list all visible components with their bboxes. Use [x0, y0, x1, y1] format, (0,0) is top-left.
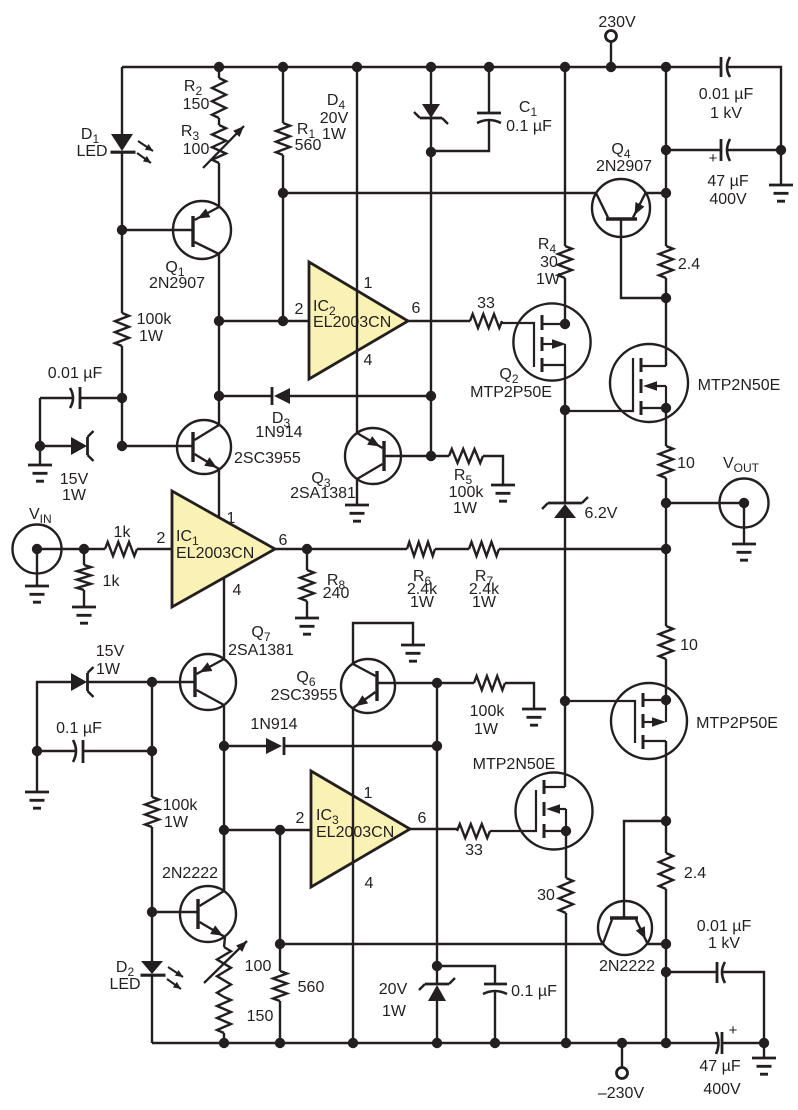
wire R7 to VOUT column — [499, 548, 666, 550]
wire R3 to Q1 emitter — [218, 163, 220, 207]
ground 100k lower mid — [505, 683, 534, 709]
node VOUT junction — [661, 498, 671, 508]
ground R8 — [306, 601, 308, 618]
capacitor 0.1uF lower left — [82, 740, 85, 763]
resistor R6 2.4k 1W — [407, 542, 435, 556]
resistor R5 100k 1W — [449, 449, 483, 463]
svg-text:1W: 1W — [536, 271, 561, 288]
capacitor 0.01uF 1kV lower right — [666, 971, 717, 973]
capacitor 47uF 400V top right — [666, 149, 721, 151]
wire IC2 output pin6 — [408, 320, 470, 322]
resistor R1 560 — [282, 67, 284, 123]
node lower P gate row — [560, 696, 570, 706]
svg-text:MTP2P50E: MTP2P50E — [470, 384, 552, 401]
node 47uF left — [661, 145, 671, 155]
svg-text:10: 10 — [680, 637, 698, 654]
wire Q1 base row — [122, 229, 192, 231]
diode D2 LED — [151, 912, 153, 961]
node Q3 base row — [426, 451, 436, 461]
svg-text:0.01 µF: 0.01 µF — [48, 365, 103, 382]
ground lower left — [36, 751, 38, 792]
ground bottom right — [763, 1043, 765, 1058]
wire D2 to rail corner — [151, 976, 153, 1043]
zener 15V 1W upper — [40, 445, 71, 447]
wire VOUT node down — [665, 503, 667, 549]
svg-text:400V: 400V — [703, 1081, 741, 1098]
svg-text:100k: 100k — [163, 797, 199, 814]
resistor 100k 1W upper left — [115, 313, 129, 346]
node Q1 base junction — [117, 225, 127, 235]
terminal 230V — [606, 31, 617, 42]
resistor 100 variable — [217, 947, 231, 997]
wire R4 to Q2 source node — [564, 278, 566, 324]
node Q6 base / 100k — [432, 678, 442, 688]
wire 10 into mosfet — [665, 659, 667, 700]
wire Q4 base-collector row — [283, 192, 596, 194]
svg-text:1W: 1W — [453, 500, 478, 517]
wire Q6 collector to ground — [353, 623, 413, 664]
wire Q6 emitter / IC3 pin1 pin4 vertical — [352, 708, 354, 1043]
terminal -230V — [621, 1043, 623, 1067]
resistor 100k 1W lower mid — [474, 676, 505, 690]
svg-text:D4: D4 — [327, 92, 346, 112]
svg-text:R2: R2 — [184, 78, 203, 98]
resistor 10 upper — [659, 446, 673, 478]
wire collector row lower — [280, 943, 603, 945]
svg-text:20V: 20V — [320, 110, 349, 127]
svg-text:0.1 µF: 0.1 µF — [56, 720, 102, 737]
node 0.1uF right — [147, 746, 157, 756]
wire top rail right corner — [726, 67, 781, 150]
node zener left — [35, 441, 45, 451]
svg-text:VIN: VIN — [29, 506, 52, 526]
svg-text:MTP2N50E: MTP2N50E — [473, 756, 556, 773]
ground R5 — [483, 456, 503, 485]
zener 15V 1W lower — [37, 682, 71, 751]
svg-text:560: 560 — [295, 137, 322, 154]
svg-text:2N2907: 2N2907 — [149, 275, 205, 292]
svg-text:2N2222: 2N2222 — [599, 958, 655, 975]
wire source to 30 — [565, 831, 567, 878]
wire IC2 pin1/pin4 vertical — [356, 67, 358, 433]
resistor 2.4 upper right — [665, 194, 667, 246]
svg-text:1W: 1W — [164, 814, 189, 831]
svg-text:–230V: –230V — [598, 1085, 645, 1102]
zener 6.2V — [548, 502, 582, 505]
svg-text:LED: LED — [76, 143, 107, 160]
diode D1 LED — [111, 134, 133, 151]
resistor R2 150 — [218, 67, 220, 78]
node D3 row left — [214, 391, 224, 401]
svg-text:+: + — [709, 150, 718, 167]
node 560 collector row — [275, 939, 285, 949]
wire 150 to rail — [223, 1033, 225, 1043]
mosfet MTP2N50E lower — [516, 773, 593, 850]
node top right corner — [776, 145, 786, 155]
node 0.01uF row right — [661, 967, 671, 977]
diode D3 1N914 — [219, 395, 272, 397]
svg-text:150: 150 — [183, 96, 210, 113]
ground upper left — [39, 446, 41, 465]
transistor 2N2222 lower left — [180, 886, 236, 942]
wire L to 2N2222 base — [624, 821, 666, 917]
svg-text:MTP2N50E: MTP2N50E — [698, 377, 781, 394]
svg-text:1: 1 — [227, 510, 236, 527]
svg-text:EL2003CN: EL2003CN — [313, 314, 391, 331]
mosfet MTP2N50E upper right — [610, 344, 688, 422]
svg-text:2.4: 2.4 — [678, 256, 700, 273]
node 1N914 left — [219, 741, 229, 751]
wire Q6 base row — [379, 682, 475, 684]
svg-text:EL2003CN: EL2003CN — [316, 824, 394, 841]
ground 1k shunt — [83, 590, 85, 607]
svg-text:1: 1 — [364, 275, 373, 292]
node IC2 pin2 row left — [214, 316, 224, 326]
transistor Q3 2SA1381 — [345, 428, 401, 484]
wire D1 to Q1 base node — [121, 153, 123, 230]
mosfet MTP2P50E lower — [611, 683, 687, 759]
svg-text:6.2V: 6.2V — [585, 505, 618, 522]
transistor Q4 2N2907 — [592, 179, 650, 237]
svg-text:30: 30 — [540, 254, 558, 271]
svg-text:4: 4 — [365, 875, 374, 892]
op-amp IC3 EL2003CN — [311, 771, 410, 887]
svg-text:2N2222: 2N2222 — [162, 865, 218, 882]
wire 2.4 down right column — [665, 889, 667, 1043]
resistor 1k series — [105, 542, 137, 556]
resistor 10 lower — [665, 549, 667, 626]
wire VOUT row — [666, 502, 744, 504]
svg-text:0.01 µF: 0.01 µF — [699, 86, 754, 103]
node 0.01uF right — [117, 393, 127, 403]
svg-text:0.01 µF: 0.01 µF — [697, 918, 752, 935]
resistor 33 lower — [457, 824, 490, 838]
node 0.1uF left — [32, 746, 42, 756]
wire to Q7 base — [152, 681, 194, 683]
svg-text:6: 6 — [279, 532, 288, 549]
transistor Q6 2SC3955 — [341, 659, 395, 713]
svg-text:R4: R4 — [538, 236, 557, 256]
svg-text:C1: C1 — [519, 99, 538, 119]
wire zener down to lower gate node — [564, 518, 566, 787]
wire node to 100k — [121, 230, 123, 313]
svg-text:150: 150 — [247, 1008, 274, 1025]
node bottom rail junctions — [219, 1038, 229, 1048]
svg-text:VOUT: VOUT — [723, 455, 760, 475]
wire Q3 collector to ground — [356, 479, 358, 505]
svg-text:1: 1 — [364, 785, 373, 802]
svg-text:1W: 1W — [474, 721, 499, 738]
svg-text:Q2: Q2 — [499, 366, 518, 386]
resistor 560 lower — [273, 971, 287, 1001]
wire 2SC3955 emitter to IC1 pin1 — [218, 469, 220, 517]
node D3 right — [426, 391, 436, 401]
terminal VOUT — [720, 479, 769, 528]
node 0.1uF row lower — [432, 961, 442, 971]
svg-text:2SC3955: 2SC3955 — [234, 450, 301, 467]
svg-text:R3: R3 — [181, 123, 200, 143]
wire 560 to bottom rail — [279, 1001, 281, 1043]
wire IC2 pin2 input row — [219, 320, 309, 322]
node R8 top — [302, 544, 312, 554]
op-amp IC1 EL2003CN — [172, 491, 275, 607]
svg-text:47 µF: 47 µF — [707, 173, 748, 190]
node Q2 source top — [560, 319, 570, 329]
svg-text:230V: 230V — [598, 14, 636, 31]
svg-text:1k: 1k — [114, 524, 132, 541]
wire zener to Q7 base node — [88, 681, 152, 683]
wire 2.4 to drain node — [665, 278, 667, 298]
node 2N2222 base row — [147, 907, 157, 917]
wire IC1 output row — [275, 548, 407, 550]
svg-text:1W: 1W — [322, 126, 347, 143]
svg-text:47 µF: 47 µF — [699, 1058, 740, 1075]
node lower N source — [561, 826, 571, 836]
svg-text:MTP2P50E: MTP2P50E — [696, 715, 778, 732]
svg-text:6: 6 — [418, 810, 427, 827]
capacitor C1 0.1uF — [488, 67, 490, 113]
svg-text:4: 4 — [233, 582, 242, 599]
wire 100k to base node — [151, 827, 153, 912]
svg-text:100k: 100k — [470, 703, 506, 720]
terminal VIN — [13, 525, 62, 574]
wire D4 down to Q3 base node — [430, 118, 432, 456]
svg-text:2: 2 — [295, 301, 304, 318]
wire 100k to cap node — [121, 346, 123, 446]
svg-text:33: 33 — [477, 295, 495, 312]
wire top rail — [122, 66, 721, 68]
node IC3 pin2 left — [219, 825, 229, 835]
wire Q3 base row — [386, 455, 450, 457]
zener D4 20V 1W — [430, 67, 432, 104]
wire right column rail to nodes — [665, 67, 667, 194]
svg-text:400V: 400V — [709, 191, 747, 208]
capacitor 0.1uF lower mid — [437, 966, 495, 984]
capacitor 0.01uF upper left — [79, 387, 82, 409]
svg-text:2SA1381: 2SA1381 — [290, 485, 356, 502]
node lower P drain — [661, 695, 671, 705]
svg-text:1W: 1W — [139, 328, 164, 345]
node Q4 emitter — [661, 188, 671, 198]
wire IC3 output — [410, 828, 457, 830]
node R1 bottom — [278, 188, 288, 198]
wire R4 column from rail — [564, 67, 566, 246]
node Q7 base row — [147, 677, 157, 687]
node emitter row right — [661, 939, 671, 949]
zener 20V 1W lower — [425, 983, 449, 986]
svg-text:LED: LED — [109, 976, 140, 993]
node mosfet source — [661, 403, 671, 413]
node top rail junctions — [214, 62, 224, 72]
transistor Q1 2N2907 — [173, 201, 231, 259]
wire IC1 pin4 to Q7 — [223, 578, 225, 659]
wire zener to 2SC3955 base — [122, 445, 192, 447]
svg-text:1W: 1W — [96, 661, 121, 678]
svg-text:0.1 µF: 0.1 µF — [506, 118, 552, 135]
node 1N914 right — [432, 741, 442, 751]
node VIN divider — [79, 544, 89, 554]
resistor 2.4 lower — [665, 821, 667, 853]
capacitor 0.01uF 1kV top right — [720, 57, 723, 77]
svg-text:100: 100 — [245, 958, 272, 975]
resistor 1k shunt — [83, 549, 85, 565]
wire corner to zener row — [39, 398, 41, 446]
svg-text:100: 100 — [183, 141, 210, 158]
resistor R8 240 — [306, 549, 308, 570]
wire R6 to R7 — [435, 548, 469, 550]
svg-text:1 kV: 1 kV — [710, 105, 742, 122]
svg-text:20V: 20V — [379, 981, 408, 998]
svg-text:4: 4 — [364, 352, 373, 369]
svg-text:1N914: 1N914 — [250, 716, 297, 733]
svg-text:1N914: 1N914 — [255, 424, 302, 441]
svg-text:240: 240 — [323, 585, 350, 602]
mosfet Q2 MTP2P50E — [513, 303, 590, 380]
wire emitter to 100 var — [224, 937, 225, 947]
svg-text:30: 30 — [537, 887, 555, 904]
svg-text:Q6: Q6 — [296, 669, 315, 689]
svg-text:100k: 100k — [137, 311, 173, 328]
wire left column to 100k — [151, 682, 153, 797]
wire 437 column — [436, 683, 438, 984]
svg-text:EL2003CN: EL2003CN — [176, 545, 254, 562]
wire R1 to IC2 pin2 node — [282, 155, 284, 321]
wire rail to LED D1 — [121, 67, 123, 134]
svg-text:1W: 1W — [410, 594, 435, 611]
wire IC3 pin2 row — [224, 829, 311, 831]
wire Q4 base down to node — [621, 221, 666, 299]
wire Q1 collector down — [218, 254, 220, 425]
svg-text:10: 10 — [677, 455, 695, 472]
wire 1k to IC1 pin2 — [137, 548, 172, 550]
node D4/C1 row — [426, 147, 436, 157]
resistor R3 100 variable — [218, 118, 220, 125]
node Q2 drain / N gate row — [560, 405, 570, 415]
transistor 2SC3955 upper — [177, 420, 231, 474]
wire base row — [152, 911, 197, 913]
diode 1N914 lower — [224, 745, 266, 747]
node Q4 base / mosfet drain — [661, 293, 671, 303]
resistor 33 upper — [470, 314, 502, 328]
svg-text:1W: 1W — [382, 1003, 407, 1020]
svg-text:0.1 µF: 0.1 µF — [511, 983, 557, 1000]
svg-text:1W: 1W — [472, 594, 497, 611]
svg-text:2N2907: 2N2907 — [596, 158, 652, 175]
wire VIN to 1k — [37, 548, 105, 550]
wire source to 10 — [665, 408, 667, 446]
node IC2 pin2 mid — [278, 316, 288, 326]
svg-text:1 kV: 1 kV — [708, 935, 740, 952]
transistor Q7 2SA1381 — [180, 654, 236, 710]
wire Q2 drain down — [564, 365, 566, 503]
resistor 150 — [217, 997, 231, 1033]
wire 560 column — [279, 830, 281, 971]
resistor 100k 1W lower left — [145, 797, 159, 827]
node R7 right — [661, 544, 671, 554]
node 2N2222 base L — [661, 816, 671, 826]
wire 30 to bottom rail — [565, 913, 567, 1043]
svg-text:1W: 1W — [62, 487, 87, 504]
ground top right — [780, 150, 782, 185]
svg-text:Q7: Q7 — [251, 624, 270, 644]
svg-text:560: 560 — [298, 979, 325, 996]
wire Q7 collector down — [223, 705, 225, 891]
capacitor 47uF 400V bottom — [716, 1032, 719, 1054]
wire drain from Q4 node — [665, 298, 667, 366]
resistor R4 30 1W — [558, 246, 572, 278]
op-amp IC2 EL2003CN — [309, 262, 408, 379]
svg-text:2SA1381: 2SA1381 — [228, 642, 294, 659]
node zener right — [117, 441, 127, 451]
svg-text:15V: 15V — [60, 471, 89, 488]
svg-text:15V: 15V — [96, 643, 125, 660]
wire to VOUT node — [665, 478, 667, 503]
node IC3 pin2 mid — [275, 825, 285, 835]
svg-text:33: 33 — [465, 842, 483, 859]
svg-text:+: + — [729, 1022, 738, 1039]
svg-text:1k: 1k — [103, 573, 121, 590]
svg-text:2.4: 2.4 — [684, 865, 706, 882]
svg-text:2: 2 — [296, 810, 305, 827]
resistor R7 2.4k 1W — [469, 542, 499, 556]
svg-text:6: 6 — [412, 300, 421, 317]
svg-text:2: 2 — [157, 530, 166, 547]
svg-text:2SC3955: 2SC3955 — [271, 687, 338, 704]
transistor 2N2222 lower right — [598, 901, 652, 955]
node bottom right — [759, 1038, 769, 1048]
wire lower P source down — [665, 741, 667, 821]
wire 2N2222 collector up — [223, 830, 225, 891]
wire bottom rail — [152, 1042, 718, 1044]
resistor 30 lower — [559, 878, 573, 913]
svg-text:100k: 100k — [449, 484, 485, 501]
